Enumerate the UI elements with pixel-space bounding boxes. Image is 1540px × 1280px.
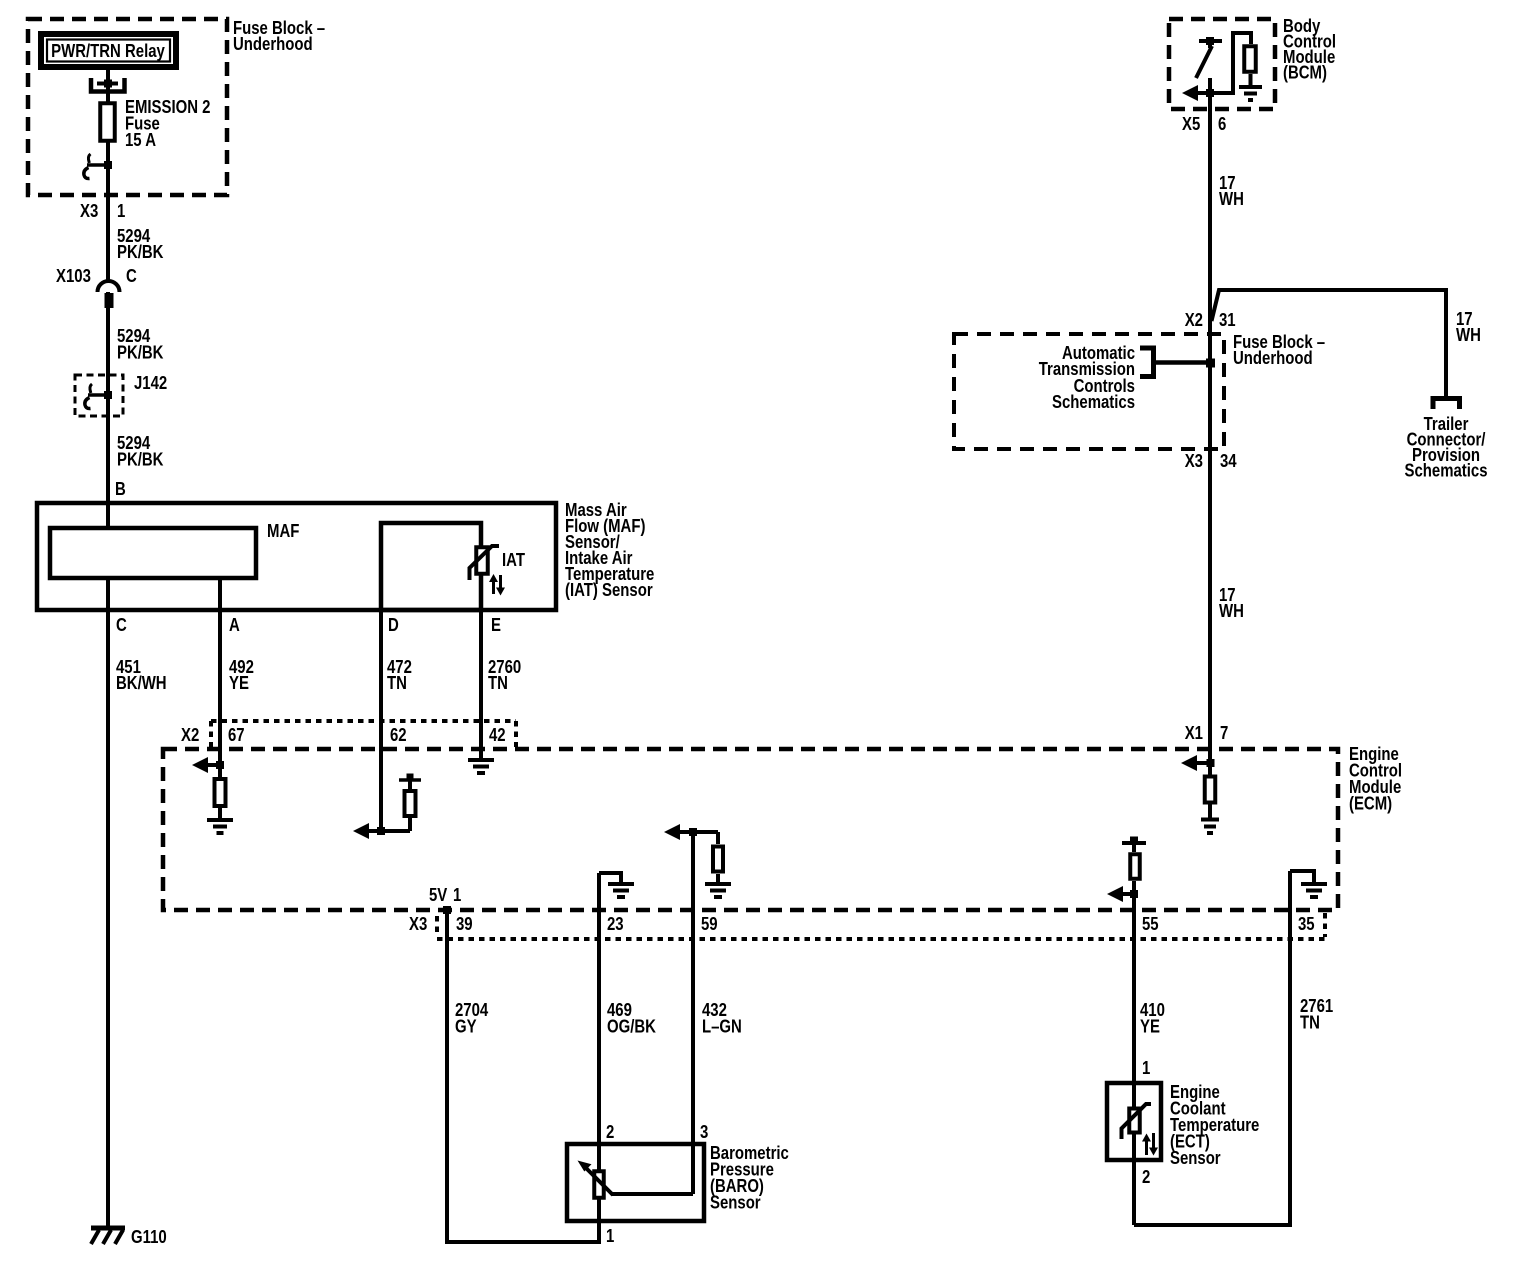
svg-text:PK/BK: PK/BK <box>117 449 164 470</box>
inline connector X103 terminal C <box>56 266 137 308</box>
ECM pin 42 internal ground <box>468 760 494 773</box>
wire 2761 TN from ECT pin 2 to ECM pin 35 <box>1134 871 1333 1225</box>
IAT bidirectional arrows <box>489 574 505 596</box>
ECM pin 59: arrow, node, pull-up resistor, ground <box>664 824 731 897</box>
wire 5294 PK/BK segment 2 <box>108 292 164 400</box>
svg-text:Schematics: Schematics <box>1405 460 1488 481</box>
ECM pin 7: arrow, node, resistor, ground <box>1181 755 1219 833</box>
label Engine Control Module (ECM) <box>1349 744 1402 814</box>
fuse block terminal clip symbol <box>84 154 112 179</box>
fuse block underhood (right) dashed box / automatic transmission controls <box>954 334 1224 449</box>
wire 5294 PK/BK segment 3 to MAF pin B <box>108 395 164 528</box>
connector dotted boundary X3 (ECM bottom) <box>437 913 1325 939</box>
BCM internal resistor to ground <box>1210 33 1262 100</box>
svg-text:7: 7 <box>1220 723 1228 744</box>
wire from relay to fuse block bottom <box>106 70 110 195</box>
trailer connector terminal <box>1433 399 1460 410</box>
svg-text:X2: X2 <box>181 725 199 746</box>
splice J142 <box>75 373 167 416</box>
thermistor IAT <box>470 546 525 580</box>
svg-text:C: C <box>116 615 127 636</box>
ECT sensor box <box>1107 1083 1161 1160</box>
svg-text:(BCM): (BCM) <box>1283 62 1327 83</box>
svg-text:3: 3 <box>700 1122 708 1143</box>
svg-text:X103: X103 <box>56 266 91 287</box>
svg-text:MAF: MAF <box>267 521 299 542</box>
svg-text:X2: X2 <box>1185 310 1203 331</box>
label Trailer Connector/Provision Schematics <box>1405 414 1488 481</box>
connector labels X3 39 23 59 55 35 <box>409 914 1315 935</box>
svg-text:(ECM): (ECM) <box>1349 793 1392 814</box>
BARO sensor box <box>567 1144 704 1221</box>
connector label X3 pin 34 <box>1185 451 1238 472</box>
svg-text:G110: G110 <box>131 1227 167 1248</box>
svg-text:PK/BK: PK/BK <box>117 242 164 263</box>
connector label X5 pin 6 <box>1182 114 1226 135</box>
svg-text:PK/BK: PK/BK <box>117 342 164 363</box>
svg-text:WH: WH <box>1219 601 1244 622</box>
ground G110 <box>91 1227 167 1248</box>
BARO pin labels 2 3 1 <box>606 1122 708 1247</box>
label Body Control Module (BCM) <box>1283 16 1336 83</box>
connector label X2 pin 31 <box>1185 310 1236 331</box>
connector dotted boundary X2 (ECM 32-way) <box>211 721 516 747</box>
svg-text:Underhood: Underhood <box>233 34 313 55</box>
wire 2760 TN from IAT pin E to ECM pin 42 <box>481 575 521 760</box>
svg-text:2: 2 <box>606 1122 614 1143</box>
svg-text:IAT: IAT <box>502 550 525 571</box>
wire 469 OG/BK from ECM pin 23 to BARO pin 2 <box>599 873 656 1242</box>
ECM input pin 62: arrow, node, pull-up resistor to B+ <box>353 774 421 840</box>
svg-text:OG/BK: OG/BK <box>607 1016 656 1037</box>
wire 17 WH from BCM to ECM pin 7 <box>1210 94 1244 777</box>
svg-text:B: B <box>115 479 126 500</box>
relay PWR/TRN Relay <box>41 34 176 67</box>
BCM driver switch <box>1196 37 1222 94</box>
svg-text:1: 1 <box>117 201 125 222</box>
svg-text:1: 1 <box>606 1226 614 1247</box>
fuse clip top bracket <box>91 78 125 92</box>
svg-text:C: C <box>126 266 137 287</box>
fuse EMISSION 2 15A <box>100 97 210 151</box>
label Engine Coolant Temperature (ECT) Sensor <box>1170 1082 1259 1169</box>
wire 5294 PK/BK segment 1 <box>108 195 164 281</box>
label Fuse Block - Underhood (left) <box>233 18 325 55</box>
svg-text:X3: X3 <box>80 201 98 222</box>
svg-text:1: 1 <box>453 885 461 906</box>
svg-text:TN: TN <box>1300 1012 1320 1033</box>
svg-text:59: 59 <box>701 914 718 935</box>
IAT inner box <box>381 523 481 610</box>
wire branch to trailer connector <box>1212 290 1447 398</box>
svg-text:PWR/TRN Relay: PWR/TRN Relay <box>51 41 165 62</box>
svg-text:39: 39 <box>456 914 473 935</box>
svg-text:A: A <box>229 615 240 636</box>
svg-text:2: 2 <box>1142 1167 1150 1188</box>
svg-text:Underhood: Underhood <box>1233 348 1313 369</box>
svg-text:(IAT) Sensor: (IAT) Sensor <box>565 580 653 601</box>
ECM pin 35 internal ground <box>1290 871 1327 897</box>
svg-text:GY: GY <box>455 1016 477 1037</box>
svg-text:5V: 5V <box>429 885 447 906</box>
pin labels C A D E <box>116 615 501 636</box>
svg-text:J142: J142 <box>134 373 167 394</box>
ECM 5V reference node pin 39 <box>429 885 461 914</box>
label Automatic Transmission Controls Schematics <box>1039 343 1135 413</box>
wire 410 YE from ECM pin 55 to ECT pin 1 <box>1134 881 1165 1225</box>
wire 472 TN from IAT pin D to ECM pin 62 <box>381 610 412 831</box>
BARO potentiometer element <box>578 1161 694 1198</box>
connector label X1 pin 7 <box>1185 723 1229 744</box>
svg-text:TN: TN <box>387 673 407 694</box>
bracket and tap wire to automatic transmission controls <box>1140 348 1215 377</box>
svg-text:D: D <box>388 615 399 636</box>
svg-text:6: 6 <box>1218 114 1226 135</box>
svg-text:X3: X3 <box>409 914 427 935</box>
svg-text:TN: TN <box>488 673 508 694</box>
connector pin labels X2 67 62 42 <box>181 725 506 746</box>
svg-text:Sensor: Sensor <box>1170 1148 1221 1169</box>
svg-text:E: E <box>491 615 501 636</box>
svg-text:BK/WH: BK/WH <box>116 673 167 694</box>
BCM dashed box <box>1169 19 1275 109</box>
MAF/IAT sensor outer box <box>37 503 556 610</box>
ECM input pin 67: arrow, node, resistor, ground <box>192 757 233 833</box>
svg-text:X1: X1 <box>1185 723 1203 744</box>
svg-text:15 A: 15 A <box>125 130 156 151</box>
svg-text:62: 62 <box>390 725 407 746</box>
ECT pin labels 1 and 2 <box>1142 1058 1150 1188</box>
svg-text:YE: YE <box>229 673 249 694</box>
svg-text:34: 34 <box>1220 451 1237 472</box>
wire 492 YE from MAF pin A to ECM pin 67 <box>220 578 254 777</box>
ECT bidirectional arrows <box>1142 1133 1158 1156</box>
svg-text:Sensor: Sensor <box>710 1192 761 1213</box>
connector label X3 pin 1 <box>80 201 125 222</box>
MAF sensor inner box <box>50 521 299 578</box>
svg-text:Schematics: Schematics <box>1052 392 1135 413</box>
svg-text:1: 1 <box>1142 1058 1150 1079</box>
wire label 17 WH (to ECM) <box>1219 585 1244 622</box>
ECM pin 23 internal ground <box>599 873 634 897</box>
thermistor ECT <box>1122 1104 1152 1139</box>
BCM output node and arrow <box>1182 85 1214 101</box>
svg-text:WH: WH <box>1219 189 1244 210</box>
wire 2704 GY from ECM pin 39 to BARO pin 1 <box>447 910 601 1242</box>
svg-text:31: 31 <box>1219 310 1236 331</box>
label Fuse Block - Underhood (right) <box>1233 332 1325 369</box>
svg-text:35: 35 <box>1298 914 1315 935</box>
svg-text:X3: X3 <box>1185 451 1203 472</box>
svg-text:L–GN: L–GN <box>702 1016 742 1037</box>
ECM pin 55: B+ bar, resistor, node, arrow <box>1107 837 1146 903</box>
svg-text:42: 42 <box>489 725 506 746</box>
svg-text:23: 23 <box>607 914 624 935</box>
wire 432 L-GN from ECM pin 59 to BARO pin 3 <box>693 832 742 1194</box>
pin label B <box>115 479 126 500</box>
ECM dashed box <box>163 749 1338 910</box>
wire 451 BK/WH from MAF pin C to G110 <box>108 578 167 1228</box>
svg-text:X5: X5 <box>1182 114 1200 135</box>
label Mass Air Flow (MAF) Sensor / Intake Air Temperature (IAT) Sensor <box>565 500 654 601</box>
fuse block underhood (left) dashed box <box>28 19 227 195</box>
svg-text:67: 67 <box>228 725 245 746</box>
wire label 17 WH (trailer branch) <box>1456 309 1481 346</box>
svg-text:WH: WH <box>1456 325 1481 346</box>
svg-text:YE: YE <box>1140 1016 1160 1037</box>
label Barometric Pressure (BARO) Sensor <box>710 1143 789 1213</box>
svg-text:55: 55 <box>1142 914 1159 935</box>
